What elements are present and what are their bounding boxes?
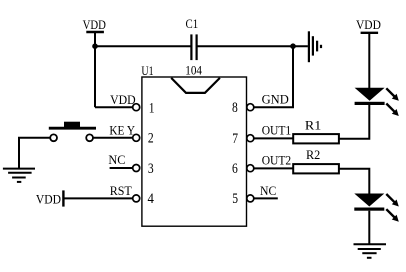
svg-text:VDD: VDD [110, 92, 136, 107]
U1 pin 5 circle [247, 195, 254, 202]
wire pin 3 stub [110, 167, 133, 169]
svg-text:RST: RST [110, 183, 132, 198]
wire pin 7 to R1 [254, 137, 294, 139]
wire VDD to LED1 anode [368, 33, 370, 88]
svg-text:1: 1 [149, 100, 155, 116]
U1 pin 1 circle [133, 104, 140, 111]
ground (bottom left) [3, 169, 35, 182]
svg-text:OUT2: OUT2 [262, 152, 292, 167]
wire R1 to LED1 [339, 105, 369, 139]
junction at GND rail [290, 43, 296, 49]
svg-text:GND: GND [262, 91, 289, 106]
svg-text:2: 2 [148, 131, 154, 147]
U1 pin 3 circle [133, 165, 140, 172]
svg-text:8: 8 [232, 100, 238, 116]
svg-text:KE Y: KE Y [109, 123, 135, 138]
power VDD (at RST) [36, 190, 64, 206]
wire junction down to pin 8 [254, 46, 293, 107]
resistor R1 [293, 118, 339, 144]
ground (bottom right) [354, 244, 387, 258]
svg-text:NC: NC [108, 152, 125, 167]
svg-text:5: 5 [232, 191, 238, 207]
svg-text:VDD: VDD [36, 192, 61, 207]
LED D2 [354, 194, 399, 222]
push button (KEY) [49, 122, 96, 142]
svg-text:NC: NC [260, 183, 276, 198]
svg-text:4: 4 [148, 191, 155, 207]
wire VDD rail down to pin 1 [94, 32, 96, 107]
U1 pin 4 circle [133, 195, 140, 202]
wire button to ground [19, 138, 50, 168]
capacitor C1 [185, 16, 202, 78]
U1 pin 8 circle [247, 104, 254, 111]
wire pin 5 stub [254, 197, 278, 199]
svg-text:3: 3 [148, 161, 154, 177]
IC U1 body [141, 63, 246, 226]
svg-text:R2: R2 [306, 147, 320, 162]
wire R2 to LED2 [339, 169, 369, 194]
svg-text:OUT1: OUT1 [262, 122, 292, 137]
U1 pin 7 circle [247, 135, 254, 142]
wire C1 right plate to ground [197, 45, 308, 47]
svg-text:VDD: VDD [356, 17, 381, 32]
wire pin 4 to VDD [63, 197, 132, 199]
resistor R2 [293, 147, 339, 173]
power VDD (top right) [356, 17, 381, 33]
svg-text:R1: R1 [305, 118, 321, 133]
U1 pin 2 circle [133, 134, 140, 141]
svg-text:VDD: VDD [83, 17, 106, 32]
wire VDD rail to C1 left plate [95, 45, 191, 47]
ground (top right, rotated earth) [309, 31, 321, 62]
wire pin 2 to button [93, 137, 133, 139]
svg-text:6: 6 [232, 161, 238, 177]
svg-text:7: 7 [232, 131, 238, 147]
power VDD (top left) [83, 17, 106, 32]
svg-text:U1: U1 [141, 63, 153, 78]
LED D1 [355, 88, 399, 116]
junction at VDD rail [92, 43, 98, 49]
wire pin 6 to R2 [254, 167, 294, 169]
U1 pin 6 circle [247, 165, 254, 172]
wire pin 1 [95, 106, 133, 108]
svg-text:C1: C1 [186, 16, 199, 31]
wire LED2 cathode to ground [368, 211, 370, 244]
svg-text:104: 104 [185, 62, 202, 77]
